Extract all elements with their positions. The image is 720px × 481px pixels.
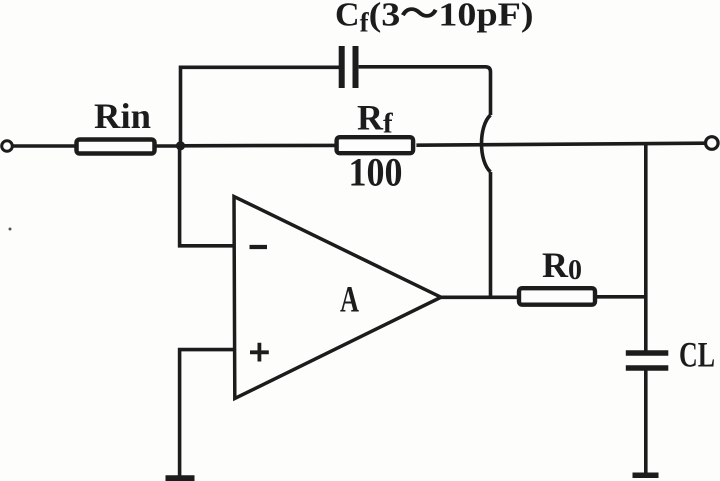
svg-text:100: 100	[349, 150, 403, 195]
wire CL to ground	[644, 370, 648, 474]
capacitor Cf right plate	[353, 46, 359, 88]
wire R0 to CL node	[596, 295, 647, 299]
wire node down to inverting input	[180, 146, 233, 246]
wire branch down from rail to CL	[644, 143, 648, 351]
svg-text:Rin: Rin	[94, 96, 151, 136]
svg-text:Rf: Rf	[357, 98, 393, 140]
wire node to Rf	[179, 144, 337, 148]
wire Cf right to feedback corner	[359, 67, 491, 115]
wire Rin to node	[157, 144, 183, 148]
capacitor CL bottom plate	[626, 365, 669, 371]
node junction dot	[176, 141, 185, 150]
input terminal	[2, 141, 13, 152]
capacitor Cf left plate	[339, 46, 345, 88]
wire feedback down to output node	[489, 172, 493, 297]
svg-text:Cf(3～10pF): Cf(3～10pF)	[335, 0, 534, 38]
wire input to Rin	[14, 144, 77, 148]
op-amp A	[234, 197, 441, 399]
wire node up to top rail	[181, 67, 340, 148]
wire Rf to output terminal	[416, 143, 705, 145]
wire noninverting input to ground	[180, 350, 233, 476]
capacitor CL top plate	[626, 350, 669, 356]
ground right	[633, 473, 659, 479]
svg-text:A: A	[340, 280, 359, 321]
svg-text:CL: CL	[679, 335, 715, 375]
minus sign	[250, 245, 268, 249]
resistor Rin	[77, 140, 155, 154]
resistor Rf	[337, 137, 414, 153]
plus sign	[250, 343, 269, 362]
ground left	[166, 475, 195, 481]
wire feedback hop over main rail	[482, 115, 491, 172]
svg-text:R0: R0	[542, 245, 582, 286]
resistor R0	[519, 288, 595, 305]
speck	[9, 228, 12, 231]
output terminal	[706, 137, 719, 150]
wire op-amp output to R0	[440, 295, 518, 299]
